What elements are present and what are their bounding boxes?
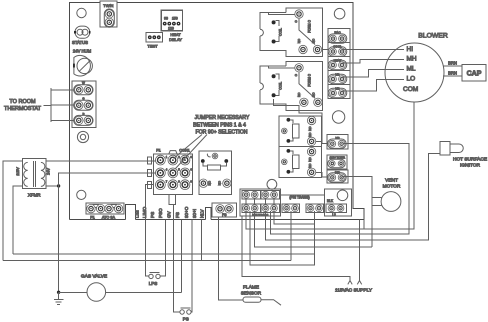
wire neutral 7 rail [274, 211, 315, 224]
svg-text:JUMPER NECESSARY: JUMPER NECESSARY [195, 115, 250, 121]
terminal IND [327, 170, 348, 183]
wire xfmr 115V bottom to left loop [13, 186, 23, 254]
wire gas valve to GV edge [106, 204, 182, 292]
terminal PRI TRANS 1 [282, 204, 300, 213]
hot surface ignitor [440, 142, 487, 169]
svg-text:8: 8 [178, 180, 180, 184]
svg-text:BRN: BRN [448, 70, 457, 75]
svg-text:MOTOR: MOTOR [383, 184, 401, 190]
svg-text:NO: NO [297, 38, 301, 43]
capacitor CAP [462, 65, 486, 82]
terminal block NEUTRALS [240, 189, 281, 217]
svg-text:PSO: PSO [158, 208, 163, 218]
svg-text:150: 150 [172, 17, 178, 21]
svg-text:LPS: LPS [149, 281, 158, 286]
pressure switch LPS [149, 273, 160, 286]
svg-text:FS: FS [222, 213, 227, 217]
wire M1 to blower ML [342, 70, 404, 78]
terminal 115V BLWR [327, 155, 347, 169]
node junction 24V [57, 184, 60, 187]
jumper note text [193, 115, 250, 135]
wire neutral 2 rail to blower COM [246, 102, 414, 229]
relay K5 [279, 147, 321, 178]
svg-text:FORM C: FORM C [308, 73, 312, 86]
wire gas valve line to PS [174, 292, 180, 312]
terminal FS [212, 203, 236, 217]
svg-text:PS: PS [183, 317, 189, 322]
svg-text:115V: 115V [16, 167, 20, 176]
connector STATUS [72, 26, 92, 53]
svg-text:GV: GV [167, 210, 172, 218]
humidity dial potentiometer [73, 55, 92, 76]
wire junction to CON1 pin 4 [59, 173, 156, 186]
blower motor [385, 33, 448, 103]
svg-text:IGNITOR: IGNITOR [460, 162, 480, 168]
svg-text:FS: FS [175, 212, 180, 218]
svg-text:BRN: BRN [448, 60, 457, 65]
wire neutral 5 rail to ignitor [266, 153, 441, 240]
svg-text:PS: PS [150, 212, 155, 218]
wire relay K2 to M3 [274, 99, 328, 143]
svg-text:L2: L2 [332, 213, 336, 217]
wire NLV edge to rail B [201, 220, 203, 261]
svg-text:BETWEEN PINS 1 & 4: BETWEEN PINS 1 & 4 [193, 122, 246, 128]
control board outline [70, 3, 365, 220]
wire FS terminal to flame sensor [218, 217, 243, 300]
svg-text:7: 7 [166, 180, 168, 184]
wire neutral 1 to supply left [242, 216, 350, 280]
svg-text:LIM: LIM [135, 210, 140, 218]
terminal M3 [327, 134, 348, 149]
svg-text:24V: 24V [47, 168, 51, 175]
wire M2 to blower LO [342, 80, 404, 92]
wire vent motor stubs [372, 198, 382, 206]
wire blower to cap [443, 66, 462, 76]
vent motor [381, 178, 401, 212]
wire FS edge to gas valve line [180, 220, 182, 293]
svg-text:LIMO: LIMO [142, 206, 147, 218]
svg-text:MH: MH [407, 56, 417, 63]
svg-text:COIL: COIL [279, 82, 283, 90]
relay K3 [199, 151, 232, 194]
svg-text:5: 5 [178, 168, 180, 172]
svg-text:LO: LO [407, 76, 416, 83]
terminal PRI TRANS 2 [306, 204, 324, 213]
svg-text:NC: NC [308, 157, 312, 162]
wire rail A [13, 253, 315, 255]
svg-text:TO ROOM: TO ROOM [9, 99, 36, 105]
svg-text:CAP: CAP [467, 71, 482, 78]
wire pri-trans transformer line [281, 194, 325, 196]
svg-text:STATUS: STATUS [72, 40, 88, 45]
svg-text:115VAC SUPPLY: 115VAC SUPPLY [335, 288, 373, 294]
flame sensor [241, 284, 281, 305]
wire rail B [3, 260, 291, 262]
svg-text:NC: NC [217, 180, 221, 185]
svg-text:XFMR: XFMR [28, 193, 41, 198]
thermostat terminal group box [72, 81, 96, 127]
svg-text:COM: COM [403, 86, 418, 93]
svg-text:BLOWER: BLOWER [418, 33, 448, 40]
wire neutral 6 rail to M3 [271, 143, 410, 234]
svg-text:GAS VALVE: GAS VALVE [81, 274, 107, 280]
wire relay K5 NO to IND [316, 172, 327, 177]
wire relay K1 NC to COOL [322, 49, 328, 51]
mounting hole ring left [77, 131, 88, 142]
svg-text:DELAY: DELAY [169, 37, 182, 42]
svg-text:TWIN: TWIN [103, 3, 113, 8]
wire COOL to blower HI [342, 49, 404, 51]
connector CON1 [147, 149, 192, 205]
pressure switch PS [180, 308, 191, 321]
thermostat terminal W [74, 81, 93, 95]
svg-text:C: C [294, 73, 298, 76]
wire xfmr 115V top to left loop [3, 161, 23, 261]
transformer XFMR [16, 159, 51, 198]
terminal block BLK L2 [325, 189, 352, 217]
connector TEST [146, 33, 163, 49]
svg-text:THERMOSTAT: THERMOSTAT [4, 106, 42, 112]
svg-text:90+I: 90+I [192, 209, 197, 218]
svg-text:F1: F1 [156, 149, 160, 153]
svg-text:90+O: 90+O [184, 206, 189, 218]
svg-text:NLV: NLV [200, 208, 205, 218]
svg-text:FLAME: FLAME [243, 284, 259, 290]
svg-text:NC: NC [308, 126, 312, 131]
relay K4 [279, 116, 321, 147]
wire 90+I edge to PS [191, 220, 192, 312]
relay K1 cool [260, 8, 323, 57]
thermostat terminal R [74, 112, 93, 126]
wire neutral 4 rail to vent motor [255, 211, 372, 247]
svg-text:SENSOR: SENSOR [241, 290, 262, 296]
svg-text:NO: NO [308, 132, 312, 137]
mounting hole right-middle [332, 111, 344, 123]
jumper leader lines [174, 135, 208, 169]
svg-text:BLK: BLK [327, 199, 334, 203]
terminal EAC [328, 29, 350, 44]
wire xfmr 24V top to CON1 pin 1 [46, 160, 156, 162]
fuse holder F1 ATO 3A [86, 203, 124, 220]
mounting hole top-left [77, 8, 86, 17]
svg-text:HOT SURFACE: HOT SURFACE [453, 156, 487, 162]
terminal HEAT [328, 57, 350, 71]
wire PSO edge to LPS [160, 220, 165, 276]
wire supply right [359, 220, 361, 281]
svg-text:24V HUM: 24V HUM [73, 49, 92, 54]
mounting hole top-right [334, 8, 345, 19]
svg-text:NC: NC [312, 38, 316, 43]
thermostat bracket [44, 88, 74, 122]
relay K2 heat [260, 62, 323, 111]
connector TWIN [100, 1, 117, 27]
terminal COOL [328, 43, 350, 57]
connector HEAT DELAY [161, 10, 182, 42]
svg-text:FORM C: FORM C [308, 20, 312, 33]
svg-text:4: 4 [166, 168, 168, 172]
svg-text:NO: NO [308, 163, 312, 168]
wire board corner stub [363, 220, 365, 229]
svg-text:(PRI TRANS): (PRI TRANS) [289, 196, 309, 200]
svg-text:COIL: COIL [279, 28, 283, 36]
svg-text:1: 1 [166, 155, 168, 159]
wire pri-trans 1 [290, 211, 292, 261]
terminal M1 [328, 71, 350, 85]
svg-text:2: 2 [178, 155, 180, 159]
gas valve [59, 274, 108, 302]
supply arrows 115VAC [335, 281, 373, 294]
ground [54, 292, 64, 304]
wire IND to vent motor [342, 177, 372, 248]
svg-text:F1: F1 [90, 216, 94, 220]
svg-text:HI: HI [407, 46, 414, 53]
svg-text:120: 120 [168, 27, 174, 31]
wire xfmr 24V bottom to junction [46, 185, 59, 187]
svg-text:TEST: TEST [147, 44, 158, 49]
thermostat terminal G [74, 97, 93, 111]
svg-text:NC: NC [312, 92, 316, 97]
wire HEAT to blower MH [342, 60, 404, 64]
wire CON1 row3 to LPS [145, 185, 153, 276]
svg-text:VENT: VENT [385, 178, 398, 184]
svg-text:ML: ML [407, 66, 416, 73]
svg-text:NO: NO [297, 92, 301, 97]
label TO ROOM THERMOSTAT [4, 99, 42, 112]
wire junction to gas valve [58, 186, 60, 292]
svg-text:FOR 90+ SELECTION: FOR 90+ SELECTION [195, 129, 247, 135]
terminal M2 [328, 85, 350, 99]
mounting hole bottom-left [77, 190, 86, 199]
wire relay K4 NO to M3 wire [316, 140, 322, 142]
node junction gas valve [57, 291, 60, 294]
svg-text:C: C [294, 20, 298, 23]
svg-text:ATO 3A: ATO 3A [102, 216, 116, 220]
wire neutral 3 rail [250, 211, 315, 265]
mounting hole center [267, 179, 277, 189]
svg-text:90: 90 [164, 17, 168, 21]
